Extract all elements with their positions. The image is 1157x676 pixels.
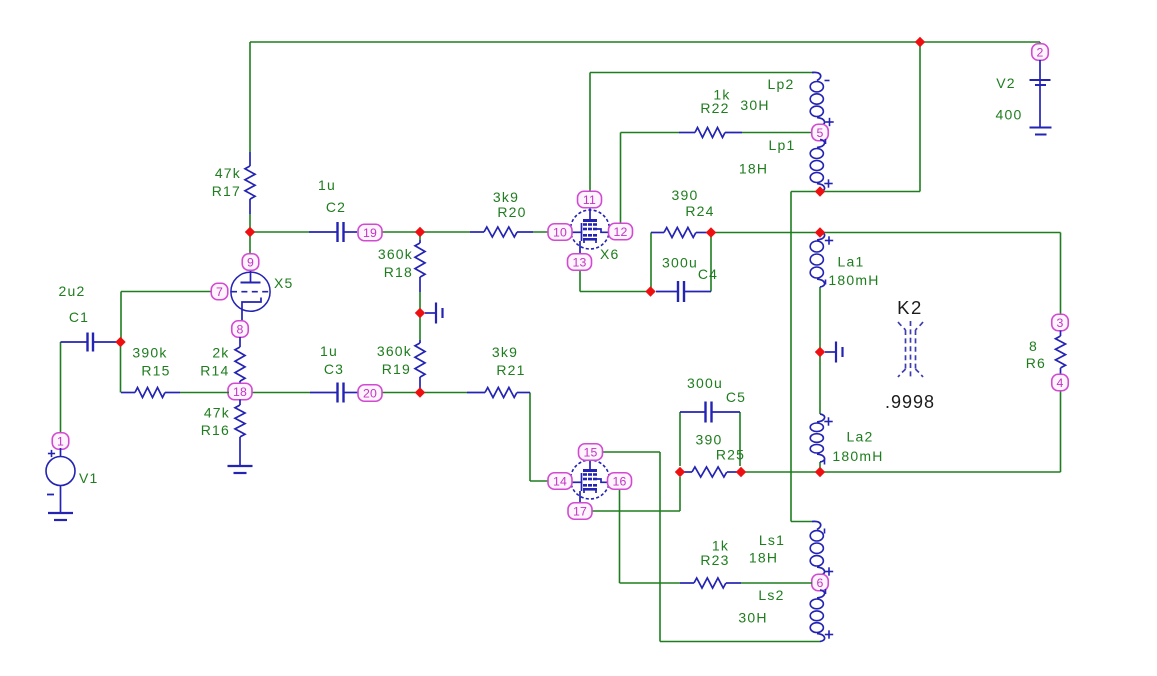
- Lp1 polarity marks: [824, 139, 832, 188]
- svg-text:R19: R19: [382, 361, 411, 377]
- resistor R17: [212, 152, 255, 232]
- svg-text:R17: R17: [212, 183, 241, 199]
- pin 5: [812, 124, 829, 141]
- ground below R16: [228, 437, 253, 473]
- svg-text:390k: 390k: [132, 345, 167, 361]
- svg-text:18: 18: [233, 385, 247, 399]
- wire X6 pin 13 down: [579, 270, 581, 292]
- svg-text:8: 8: [1029, 338, 1038, 354]
- node dot R25 right: [736, 467, 746, 477]
- wire bottom output rail: [741, 471, 1061, 473]
- svg-text:K2: K2: [897, 297, 923, 318]
- resistor R19: [377, 313, 425, 393]
- svg-text:R21: R21: [496, 362, 525, 378]
- svg-text:8: 8: [236, 322, 243, 336]
- svg-text:6: 6: [816, 576, 823, 590]
- svg-text:R22: R22: [700, 100, 729, 116]
- wire C1 node down to R15: [120, 342, 122, 393]
- svg-text:2k: 2k: [212, 345, 229, 361]
- svg-text:13: 13: [572, 255, 586, 269]
- svg-text:Lp2: Lp2: [768, 76, 795, 92]
- node dot La2 bottom: [815, 467, 825, 477]
- node dot at R19/C3: [415, 387, 425, 397]
- svg-text:30H: 30H: [738, 610, 767, 626]
- svg-text:47k: 47k: [204, 405, 230, 421]
- svg-text:18H: 18H: [739, 161, 768, 177]
- node dot R24 right: [706, 227, 716, 237]
- svg-text:20: 20: [363, 386, 377, 400]
- node dot transformer centre: [815, 347, 825, 357]
- node dot La1 top: [815, 227, 825, 237]
- wire into pin 14: [530, 480, 549, 482]
- node dot C4 left: [645, 286, 655, 296]
- wire R6 pin 4 down: [1060, 390, 1062, 472]
- svg-text:R18: R18: [384, 264, 413, 280]
- pin 6: [812, 574, 829, 591]
- wire node to X5 pin 9: [249, 232, 251, 255]
- node dot at C1/R15: [115, 337, 125, 347]
- node dot at R17/C2: [245, 227, 255, 237]
- wire to R23: [620, 582, 681, 584]
- resistor R22: [679, 87, 812, 138]
- wire R22 left segment: [621, 132, 680, 134]
- wire pin13 to C4: [580, 291, 651, 293]
- svg-text:R20: R20: [497, 204, 526, 220]
- svg-text:4: 4: [1056, 376, 1063, 390]
- svg-text:1u: 1u: [320, 343, 338, 359]
- svg-text:7: 7: [216, 285, 223, 299]
- svg-text:19: 19: [363, 226, 377, 240]
- tube X7 (pentode): [571, 458, 610, 505]
- capacitor C5: [680, 375, 746, 423]
- pin 7: [211, 283, 228, 300]
- pin 2: [1032, 44, 1049, 61]
- wire R24 right leg down: [710, 233, 712, 292]
- Ls1 polarity marks: [825, 529, 834, 576]
- svg-text:Lp1: Lp1: [769, 137, 796, 153]
- wire X7 pin 17 right: [591, 510, 680, 512]
- svg-text:Ls2: Ls2: [758, 587, 784, 603]
- svg-text:C2: C2: [326, 199, 346, 215]
- svg-text:30H: 30H: [740, 97, 769, 113]
- svg-text:10: 10: [553, 225, 567, 239]
- svg-text:360k: 360k: [377, 343, 412, 359]
- svg-text:180mH: 180mH: [832, 448, 883, 464]
- svg-text:R23: R23: [700, 552, 729, 568]
- pin 9: [242, 254, 259, 271]
- resistor R16: [201, 400, 245, 439]
- La2 polarity marks: [824, 417, 832, 464]
- pin 13: [568, 254, 592, 271]
- wire pin17 up to R25 node: [679, 477, 681, 511]
- svg-text:R6: R6: [1026, 355, 1046, 371]
- wire C5 left leg: [679, 412, 681, 466]
- svg-text:R14: R14: [200, 363, 229, 379]
- wire top V+ rail horizontal: [250, 41, 1040, 43]
- pin 16: [608, 473, 632, 490]
- wire to Lp2 top: [590, 72, 814, 74]
- node dot Lp1 bottom: [815, 186, 825, 196]
- inductor Ls1: [810, 521, 824, 575]
- svg-text:300u: 300u: [662, 255, 698, 271]
- svg-text:C4: C4: [698, 266, 718, 282]
- svg-text:R16: R16: [201, 422, 230, 438]
- svg-text:14: 14: [553, 474, 567, 488]
- svg-text:5: 5: [816, 126, 823, 140]
- wire X7 pin 16 down: [619, 490, 621, 583]
- wire R21 down to pin 14: [529, 393, 531, 482]
- pin 12: [609, 223, 633, 240]
- wire grid feed vertical: [120, 292, 122, 343]
- svg-text:C1: C1: [69, 309, 89, 325]
- pin 11: [578, 191, 602, 208]
- svg-text:390: 390: [696, 432, 723, 448]
- wire Ls2 bottom horizontal: [660, 641, 820, 643]
- node dot on V+ rail: [915, 37, 925, 47]
- node dot R25 left: [675, 467, 685, 477]
- svg-text:3: 3: [1056, 316, 1063, 330]
- resistor R14: [200, 337, 245, 384]
- svg-text:Ls1: Ls1: [759, 532, 785, 548]
- svg-text:2u2: 2u2: [59, 283, 86, 299]
- svg-text:R24: R24: [685, 203, 714, 219]
- wire into Ls1 top: [791, 521, 812, 523]
- svg-text:16: 16: [612, 474, 626, 488]
- wire long vertical x=791: [790, 192, 792, 522]
- pin 10: [548, 224, 572, 241]
- pin 20: [358, 385, 382, 402]
- svg-text:La1: La1: [838, 254, 865, 270]
- svg-text:V1: V1: [79, 470, 99, 486]
- wire Lp1 bottom horizontal: [791, 191, 920, 193]
- Ls2 polarity marks: [825, 589, 833, 639]
- resistor R15: [121, 345, 229, 398]
- wire R22 to X6 pin 12: [620, 133, 622, 225]
- wire node 20 rail (pin 18 to C3/R19/R21): [251, 392, 467, 394]
- wire vertical x=660: [659, 452, 661, 642]
- svg-text:C3: C3: [324, 361, 344, 377]
- svg-text:18H: 18H: [749, 550, 778, 566]
- svg-text:V2: V2: [996, 75, 1016, 91]
- capacitor C2: [309, 177, 357, 242]
- source V2 (battery): [996, 60, 1052, 135]
- ground at transformer centre tap: [825, 342, 843, 363]
- svg-text:2: 2: [1036, 45, 1043, 59]
- ground at R18/R19 junction: [425, 303, 443, 324]
- node dot at R18/R19 ground: [415, 308, 425, 318]
- inductor La1: [810, 232, 824, 287]
- pin 14: [548, 473, 572, 490]
- resistor R23: [680, 538, 812, 589]
- pin 3: [1052, 314, 1069, 331]
- inductor La2: [810, 414, 824, 462]
- Lp2 polarity marks: [825, 81, 834, 127]
- svg-text:12: 12: [613, 225, 627, 239]
- coupling K2 symbol: [898, 321, 923, 378]
- svg-text:300u: 300u: [687, 375, 723, 391]
- pin 19: [358, 224, 382, 241]
- node dot at R18 top: [415, 227, 425, 237]
- svg-text:15: 15: [583, 445, 597, 459]
- pin 17: [568, 503, 592, 520]
- resistor R24: [651, 187, 715, 238]
- svg-text:47k: 47k: [215, 165, 241, 181]
- svg-text:9: 9: [247, 255, 254, 269]
- svg-text:R15: R15: [141, 363, 170, 379]
- pin 1: [52, 433, 69, 450]
- svg-text:400: 400: [996, 107, 1023, 123]
- wire V+ rail down to R17: [249, 42, 251, 152]
- resistor R25: [681, 432, 745, 478]
- wire centre tap to La2: [819, 352, 821, 414]
- svg-text:3k9: 3k9: [492, 344, 518, 360]
- pin 18: [228, 383, 252, 400]
- tube X6 (pentode): [571, 208, 610, 255]
- svg-text:390: 390: [672, 187, 699, 203]
- wire stub to pin 2: [1039, 42, 1041, 45]
- capacitor C1: [59, 283, 121, 352]
- resistor R18: [378, 232, 425, 313]
- wire La1 bottom to centre tap: [819, 287, 821, 352]
- svg-text:1u: 1u: [318, 177, 336, 193]
- wire R24 left leg down: [650, 233, 652, 292]
- inductor Lp1: [810, 140, 824, 192]
- pin 8: [232, 321, 249, 338]
- resistor R20: [470, 189, 533, 237]
- wire C5 right leg: [739, 412, 741, 466]
- wire V1 to C1: [60, 342, 62, 434]
- capacitor C4: [656, 255, 718, 303]
- wire node 21 rail right of R24 to R6 pin 3: [711, 233, 1061, 315]
- svg-text:3k9: 3k9: [493, 189, 519, 205]
- wire node 19 rail (plate of X5 to C2/R18/R20): [250, 231, 550, 233]
- pin 4: [1052, 374, 1069, 391]
- svg-text:1: 1: [57, 434, 64, 448]
- svg-text:11: 11: [583, 193, 596, 207]
- wire X5 grid pin 7 left: [121, 291, 212, 293]
- svg-text:180mH: 180mH: [828, 272, 879, 288]
- svg-text:360k: 360k: [378, 246, 413, 262]
- pin 15: [579, 444, 603, 461]
- svg-text:X5: X5: [274, 275, 294, 291]
- svg-text:C5: C5: [726, 389, 746, 405]
- wire down to X6 pin 11: [589, 73, 591, 193]
- wire V+ rail drop at x=920: [919, 42, 921, 192]
- ground below V1: [48, 486, 73, 521]
- La1 polarity marks: [825, 236, 833, 284]
- wire X7 pin 15 right: [602, 451, 660, 453]
- inductor Lp2: [810, 72, 824, 125]
- svg-text:.9998: .9998: [885, 392, 935, 412]
- resistor R21: [467, 344, 530, 398]
- svg-text:R25: R25: [716, 447, 745, 463]
- wire La2 tail: [819, 462, 821, 472]
- svg-text:17: 17: [573, 504, 587, 518]
- source V1: [46, 448, 99, 495]
- svg-text:La2: La2: [847, 429, 874, 445]
- resistor R6: [1026, 331, 1066, 375]
- svg-text:X6: X6: [600, 246, 620, 262]
- tube X5 (triode): [231, 270, 294, 322]
- capacitor C3: [310, 343, 358, 403]
- inductor Ls2: [810, 590, 824, 642]
